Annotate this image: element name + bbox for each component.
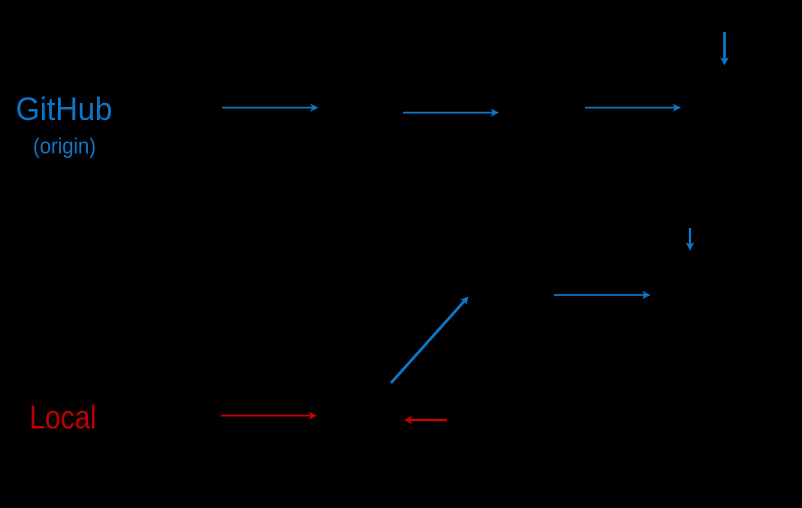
svg-text:(origin): (origin) — [33, 134, 96, 159]
arrow R2 (red horizontal pointing left, bottom middle) — [404, 416, 447, 424]
svg-text:GitHub: GitHub — [16, 91, 113, 127]
arrow R1 (red horizontal, bottom left) — [221, 412, 317, 420]
arrow A2 (top row, second blue horizontal) — [403, 109, 499, 117]
arrow A3 (top row, third blue horizontal) — [585, 104, 681, 112]
svg-text:Local: Local — [29, 399, 96, 436]
arrow D2 (small blue down arrow, right middle) — [686, 228, 695, 251]
arrow D1 (large blue down arrow, top right) — [720, 32, 729, 66]
arrow A1 (top row, first blue horizontal) — [222, 104, 319, 112]
arrow DG (blue diagonal arrow, lower middle, pointing up-right) — [391, 297, 469, 384]
arrow A4 (blue horizontal, middle right) — [554, 291, 651, 299]
